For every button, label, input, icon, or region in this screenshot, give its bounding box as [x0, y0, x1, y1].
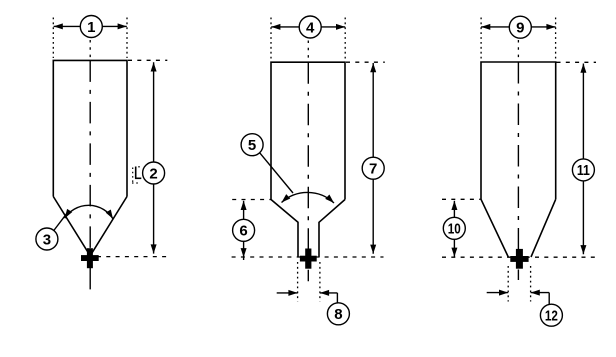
- svg-text:9: 9: [516, 20, 524, 37]
- svg-text:7: 7: [369, 161, 377, 178]
- svg-text:12: 12: [545, 308, 558, 325]
- svg-text:8: 8: [334, 306, 342, 323]
- svg-text:10: 10: [448, 221, 461, 238]
- svg-text:1: 1: [87, 19, 95, 36]
- svg-text:5: 5: [248, 137, 256, 154]
- svg-text:11: 11: [577, 162, 590, 179]
- svg-text:3: 3: [43, 231, 51, 248]
- svg-text:4: 4: [306, 19, 315, 36]
- svg-text:2: 2: [149, 165, 157, 182]
- svg-text:6: 6: [239, 223, 247, 240]
